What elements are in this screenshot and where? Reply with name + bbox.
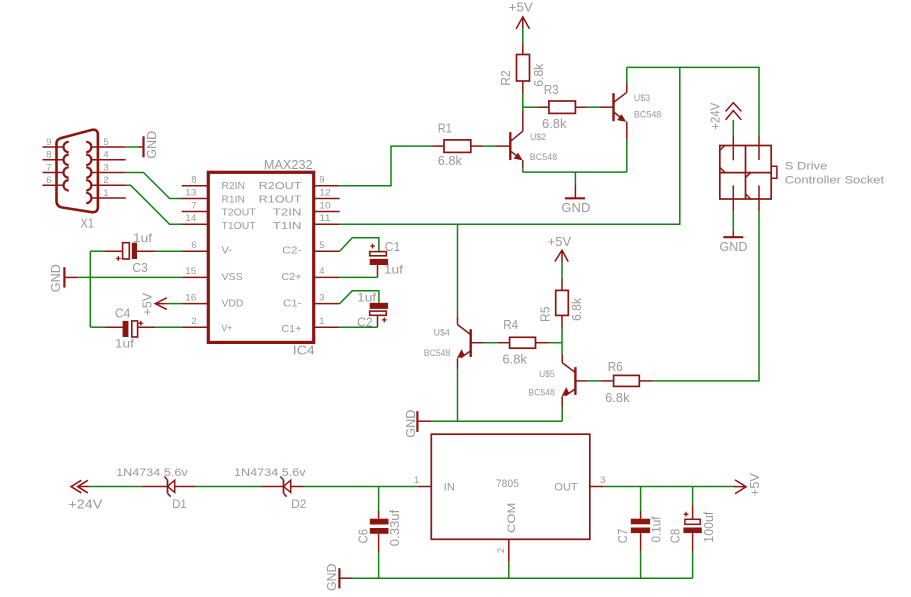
wire GND to IC4 pin15	[78, 276, 182, 278]
svg-text:X1: X1	[81, 216, 95, 230]
capacitor C3 (1uf polarized)	[116, 231, 153, 275]
wire +5V to R2	[522, 29, 524, 44]
supply +24V at socket	[709, 102, 742, 130]
wire +5V to R5	[561, 263, 563, 278]
X1 pin 8	[43, 150, 64, 161]
wire R4 to junction	[549, 342, 563, 344]
supply +5V bottom right	[733, 472, 762, 496]
svg-text:3: 3	[103, 162, 108, 173]
transistor U$2 (BC548 NPN)	[496, 110, 557, 168]
wire X1 pin3 to IC4 pin13	[126, 173, 182, 199]
wire U$4 base to R4	[483, 342, 498, 344]
svg-text:C1: C1	[385, 239, 401, 254]
wire socket to ground	[732, 211, 734, 230]
wire U$5 emitter down	[561, 407, 563, 421]
svg-text:+5V: +5V	[548, 235, 572, 249]
wire U$2 emitter down	[522, 168, 524, 172]
svg-text:S Drive: S Drive	[785, 160, 828, 172]
IC4 pin 12	[314, 187, 340, 198]
svg-text:1uf: 1uf	[133, 231, 153, 245]
wire +5V to IC4 pin16	[167, 303, 182, 305]
ground at X1 pin5	[139, 131, 160, 159]
regulator IC 7805	[431, 434, 590, 539]
wire rail to ground	[574, 172, 576, 184]
svg-text:9: 9	[46, 137, 51, 148]
wire D2 to 7805 IN	[304, 486, 418, 488]
resistor R1 (6.8k)	[432, 121, 483, 168]
capacitor C6 (0.33uf)	[356, 487, 403, 579]
svg-text:T2IN: T2IN	[273, 208, 302, 219]
X1 pin 3	[91, 162, 125, 173]
svg-text:6.8k: 6.8k	[502, 352, 527, 366]
wire X1 pin2 to IC4 pin14	[126, 185, 182, 224]
resistor R5 (6.8k)	[539, 278, 585, 329]
svg-text:T1IN: T1IN	[273, 221, 302, 232]
IC4 pin 11	[314, 213, 340, 224]
wire emitter rail U$2-U$3	[523, 171, 627, 173]
supply +5V at IC4 VDD	[140, 292, 166, 316]
resistor R2 (6.8k)	[499, 44, 546, 94]
X1 pin 5	[91, 137, 125, 148]
svg-text:MAX232: MAX232	[264, 157, 313, 172]
svg-text:R2IN: R2IN	[222, 181, 245, 192]
svg-text:5: 5	[319, 240, 324, 251]
svg-text:BC548: BC548	[528, 386, 555, 397]
X1 pin 9	[43, 137, 64, 148]
svg-text:6: 6	[191, 240, 196, 251]
svg-text:U$2: U$2	[530, 131, 546, 142]
wire U$3 collector up	[626, 67, 628, 83]
svg-text:IN: IN	[444, 482, 455, 494]
svg-text:6.8k: 6.8k	[605, 391, 630, 405]
svg-text:C7: C7	[615, 529, 630, 544]
svg-text:5: 5	[103, 137, 108, 148]
svg-text:3: 3	[600, 475, 605, 486]
svg-text:R2OUT: R2OUT	[259, 181, 302, 192]
svg-text:C2+: C2+	[281, 272, 301, 283]
ground below socket	[720, 230, 748, 254]
svg-text:BC548: BC548	[634, 109, 661, 120]
resistor R4 (6.8k)	[498, 318, 549, 366]
svg-text:U$5: U$5	[539, 368, 555, 379]
svg-text:1N4734 5.6v: 1N4734 5.6v	[116, 467, 188, 479]
svg-text:U$3: U$3	[634, 92, 650, 103]
ground below U$2/U$3	[561, 184, 590, 215]
IC4 pin 7	[182, 200, 209, 211]
svg-text:D1: D1	[172, 498, 187, 511]
wire R1 to U$2 base	[483, 145, 496, 147]
svg-text:11: 11	[319, 213, 330, 224]
svg-text:D2: D2	[291, 498, 306, 511]
svg-text:16: 16	[185, 292, 196, 303]
svg-text:R5: R5	[539, 307, 553, 323]
svg-text:BC548: BC548	[530, 151, 557, 162]
svg-text:C1+: C1+	[281, 324, 301, 335]
svg-text:13: 13	[185, 187, 196, 198]
capacitor C4 (1uf polarized)	[115, 305, 143, 350]
IC4 MAX232 body	[208, 157, 314, 358]
svg-text:T2OUT: T2OUT	[222, 208, 256, 219]
IC4 pin 15	[182, 266, 209, 277]
capacitor C8 (100uf polarized)	[667, 487, 716, 579]
svg-text:12: 12	[319, 187, 330, 198]
svg-text:7: 7	[46, 162, 51, 173]
svg-text:4: 4	[103, 150, 108, 161]
svg-text:Controller Socket: Controller Socket	[785, 175, 884, 187]
svg-text:100uf: 100uf	[702, 511, 716, 543]
X1 pin 1	[91, 188, 125, 199]
svg-text:BC548: BC548	[424, 347, 451, 358]
IC4 pin 6	[182, 240, 209, 251]
svg-text:GND: GND	[145, 131, 159, 159]
wire D1 to D2	[196, 486, 262, 488]
X1 pin 2	[91, 175, 125, 186]
IC4 pin 8	[182, 175, 209, 186]
transistor U$4 (BC548 NPN mirrored)	[424, 317, 483, 370]
wire C4 row to IC4 pin2 (V+)	[90, 326, 181, 328]
supply +5V mid	[548, 235, 572, 263]
wire U$4 emitter down	[457, 369, 459, 421]
svg-text:R3: R3	[544, 83, 559, 97]
wire C3 row to IC4 pin6 (V-)	[90, 250, 181, 252]
supply +5V top	[509, 1, 534, 29]
svg-text:V-: V-	[222, 245, 232, 256]
svg-text:R1OUT: R1OUT	[259, 194, 302, 205]
svg-text:C2: C2	[357, 315, 373, 330]
svg-text:1uf: 1uf	[357, 291, 377, 305]
svg-text:R2: R2	[499, 70, 513, 86]
IC4 pin 13	[182, 187, 209, 198]
svg-text:10: 10	[319, 200, 330, 211]
svg-text:T1OUT: T1OUT	[222, 221, 256, 232]
svg-text:1uf: 1uf	[384, 262, 404, 276]
svg-text:15: 15	[185, 266, 196, 277]
svg-text:GND: GND	[325, 564, 339, 592]
svg-text:R1: R1	[438, 121, 452, 135]
svg-text:C1-: C1-	[283, 299, 302, 310]
svg-text:R6: R6	[608, 360, 623, 374]
IC4 pin 16	[182, 292, 209, 303]
wire vertical C3-C4	[89, 251, 91, 327]
ground at IC4 VSS	[49, 264, 78, 292]
7805 pin 3	[590, 475, 606, 486]
wire +24V to socket pin	[732, 120, 734, 136]
svg-text:1uf: 1uf	[115, 337, 135, 351]
wire 7805 pin2 to ground rail	[508, 562, 510, 578]
svg-text:6.8k: 6.8k	[438, 154, 463, 168]
IC4 pin 5	[314, 240, 340, 251]
wire 7805 OUT to +5V	[603, 486, 733, 488]
svg-text:2: 2	[191, 316, 196, 327]
svg-text:1: 1	[103, 188, 108, 199]
7805 pin 2	[496, 539, 509, 562]
wire bottom ground rail	[352, 577, 693, 579]
svg-text:1: 1	[319, 316, 324, 327]
svg-text:VDD: VDD	[222, 299, 244, 310]
svg-text:1N4734 5.6v: 1N4734 5.6v	[234, 467, 306, 479]
wire +24V to D1	[90, 486, 142, 488]
wire R2 to U$2 collector	[522, 93, 524, 110]
svg-text:8: 8	[191, 175, 196, 186]
capacitor C1 (1uf polarized)	[340, 238, 404, 278]
svg-text:C8: C8	[667, 529, 682, 544]
wire IC4 pin9 to R1	[340, 146, 433, 186]
wire IC4 pin11 T1IN net	[340, 67, 680, 224]
wire top net to socket	[680, 67, 759, 135]
connector X1 (DB9 female)	[57, 130, 98, 231]
wire X1 pin5 to GND	[126, 146, 139, 148]
svg-text:GND: GND	[720, 240, 748, 254]
svg-text:C2-: C2-	[282, 246, 301, 257]
resistor R3 (6.8k)	[537, 83, 587, 131]
capacitor C2 (1uf polarized)	[340, 291, 388, 330]
wire mid ground rail	[431, 420, 562, 422]
IC4 pin 2	[182, 316, 209, 327]
7805 pin 1	[414, 475, 431, 486]
svg-text:+5V: +5V	[509, 1, 534, 15]
X1 pin 7	[43, 162, 64, 173]
IC4 pin 14	[182, 213, 209, 224]
svg-text:GND: GND	[561, 200, 590, 215]
svg-text:COM: COM	[506, 503, 518, 533]
diode D2 (zener 1N4734 5.6v)	[234, 467, 307, 511]
wire U$5 base to R6	[586, 380, 601, 382]
svg-text:V+: V+	[222, 324, 233, 335]
transistor U$5 (BC548 NPN mirrored)	[528, 355, 586, 408]
svg-text:2: 2	[496, 548, 507, 553]
supply +24V bottom left	[68, 480, 103, 511]
wire R3 to U$3 base	[587, 106, 599, 108]
svg-text:C6: C6	[356, 529, 371, 544]
svg-text:1: 1	[414, 475, 419, 486]
svg-text:U$4: U$4	[434, 327, 450, 338]
svg-text:7805: 7805	[496, 478, 519, 490]
S Drive Controller Socket	[720, 136, 884, 211]
svg-text:+24V: +24V	[709, 102, 723, 130]
svg-text:6.8k: 6.8k	[570, 297, 584, 321]
svg-text:+5V: +5V	[140, 292, 154, 316]
svg-text:+5V: +5V	[748, 472, 762, 496]
X1 pin 6	[43, 175, 64, 186]
svg-text:4: 4	[319, 266, 324, 277]
transistor U$3 (BC548 NPN)	[599, 83, 662, 140]
capacitor C7 (0.1uf)	[615, 487, 664, 579]
svg-text:3: 3	[319, 292, 324, 303]
ground at mid rail	[404, 410, 432, 438]
svg-text:14: 14	[185, 213, 196, 224]
svg-text:2: 2	[103, 175, 108, 186]
wire U$3 emitter down	[626, 140, 628, 172]
svg-text:6: 6	[46, 175, 51, 186]
svg-text:R4: R4	[503, 318, 518, 332]
svg-text:GND: GND	[49, 264, 63, 292]
IC4 pin 9	[314, 175, 340, 186]
IC4 pin 1	[314, 316, 340, 327]
resistor R6 (6.8k)	[601, 360, 652, 405]
svg-text:0.1uf: 0.1uf	[649, 516, 663, 542]
IC4 pin 3	[314, 292, 340, 303]
svg-text:9: 9	[319, 175, 324, 186]
svg-text:R1IN: R1IN	[222, 194, 245, 205]
svg-text:7: 7	[191, 200, 196, 211]
svg-text:OUT: OUT	[554, 482, 578, 494]
svg-text:0.33uf: 0.33uf	[388, 509, 402, 546]
svg-text:C4: C4	[115, 305, 130, 320]
wire junction to R3	[523, 106, 538, 108]
svg-text:C3: C3	[132, 260, 148, 275]
ground bottom rail	[325, 564, 352, 592]
wire R5 down to junction and U$5 collector	[561, 329, 563, 355]
IC4 pin 4	[314, 266, 340, 277]
svg-text:VSS: VSS	[222, 272, 243, 283]
svg-text:IC4: IC4	[293, 343, 315, 358]
wire U$4 collector to T1IN net	[457, 224, 459, 316]
wire socket right pin down to R6	[652, 211, 759, 381]
svg-text:+24V: +24V	[68, 498, 103, 512]
svg-text:6.8k: 6.8k	[542, 117, 567, 131]
svg-text:8: 8	[46, 150, 51, 161]
X1 pin 4	[91, 150, 125, 161]
diode D1 (zener 1N4734 5.6v)	[116, 467, 196, 511]
svg-text:GND: GND	[404, 410, 418, 438]
IC4 pin 10	[314, 200, 340, 211]
